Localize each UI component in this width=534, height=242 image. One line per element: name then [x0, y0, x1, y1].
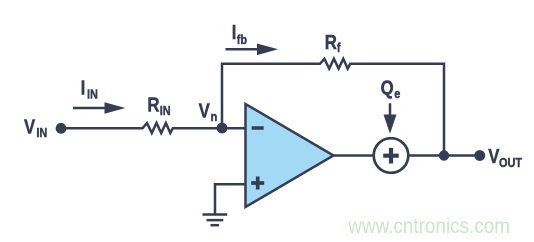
svg-text:www.cntronics.com: www.cntronics.com: [347, 215, 510, 238]
svg-text:f: f: [337, 40, 342, 55]
svg-text:V: V: [199, 99, 211, 122]
svg-text:OUT: OUT: [499, 155, 523, 170]
svg-text:IN: IN: [160, 103, 171, 118]
svg-text:R: R: [325, 30, 337, 53]
svg-text:IN: IN: [36, 125, 47, 140]
svg-text:n: n: [211, 109, 218, 124]
svg-text:R: R: [147, 93, 159, 116]
svg-text:e: e: [394, 86, 400, 101]
svg-text:Q: Q: [381, 76, 394, 99]
svg-text:I: I: [81, 76, 86, 99]
svg-text:I: I: [232, 20, 237, 43]
svg-text:IN: IN: [87, 86, 98, 101]
svg-text:fb: fb: [237, 32, 247, 47]
svg-text:V: V: [24, 115, 36, 138]
